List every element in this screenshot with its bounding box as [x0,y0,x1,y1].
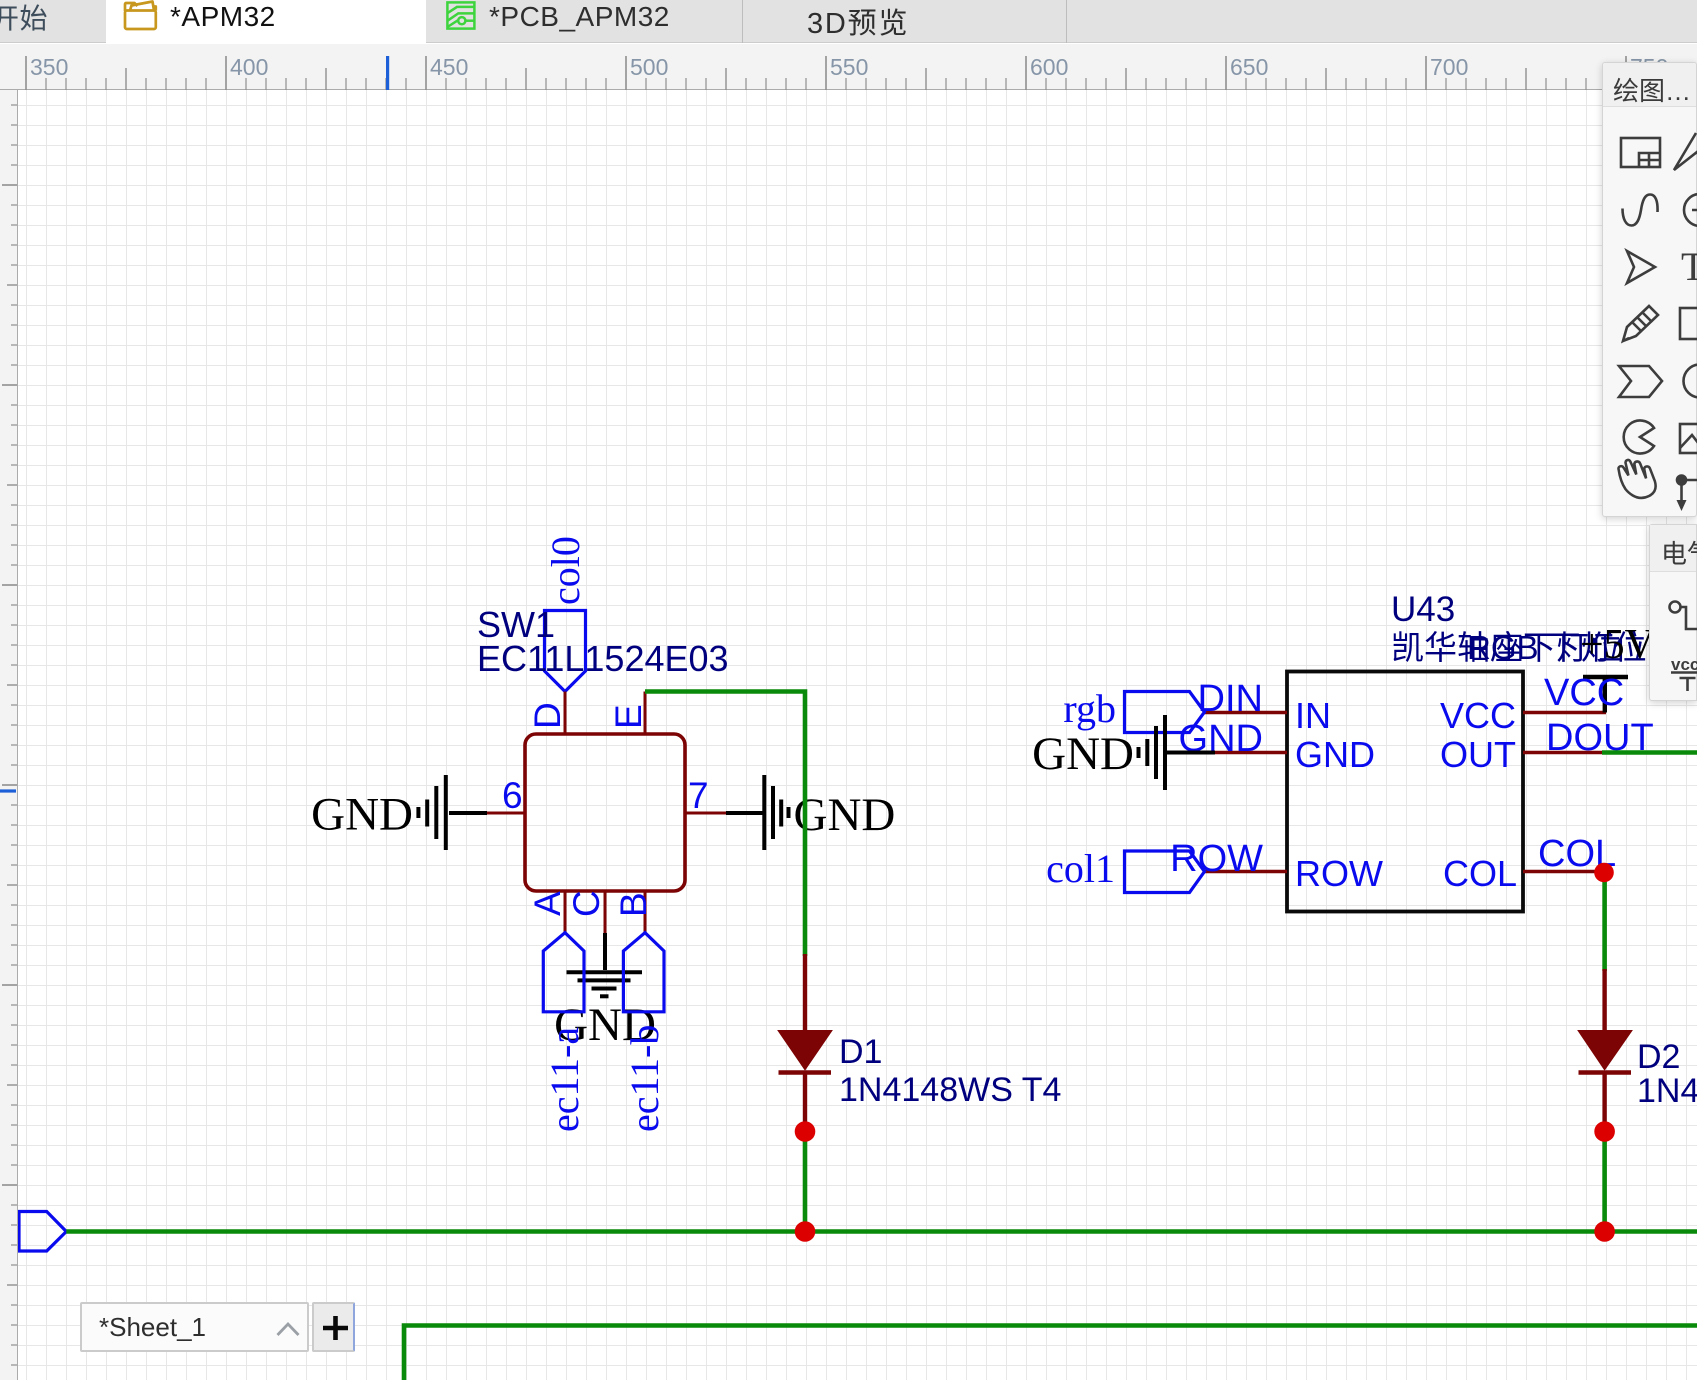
svg-text:1N4148WS T4: 1N4148WS T4 [1637,1072,1697,1110]
svg-text:6: 6 [502,775,523,816]
ground symbol right of SW1 pin 7 [726,775,789,850]
svg-text:GND: GND [311,789,413,841]
svg-text:C: C [566,890,607,917]
pin B of SW1 [644,891,647,933]
ground symbol left of SW1 pin 6 [418,775,487,850]
svg-text:U43: U43 [1391,590,1455,629]
svg-text:550: 550 [830,54,868,80]
svg-text:vcc: vcc [1671,655,1697,674]
net flag col1 [1046,846,1204,893]
svg-text:7: 7 [688,775,709,816]
pin 6 of SW1 [487,775,525,816]
svg-text:700: 700 [1430,54,1468,80]
svg-text:rgb: rgb [1063,686,1116,731]
wire D1 to main rail (green) [803,1131,808,1231]
svg-text:600: 600 [1030,54,1068,80]
svg-text:col0: col0 [543,536,588,605]
IC U43 body [1287,672,1523,912]
svg-text:E: E [608,704,649,729]
junction D1 on main rail [795,1221,816,1242]
svg-text:VCC: VCC [1440,695,1516,736]
svg-text:D1: D1 [839,1033,882,1071]
pin ROW of U43 [1205,853,1384,894]
ground symbol at U43 GND pin [1139,715,1216,790]
wire D2 to main rail (green) [1602,1131,1607,1232]
junction below D2 [1594,1121,1615,1142]
svg-text:500: 500 [630,54,668,80]
pin IN of U43 [1205,695,1332,736]
svg-text:B: B [613,892,654,917]
svg-text:350: 350 [30,54,68,80]
svg-text:T: T [1681,244,1697,289]
svg-text:VCC: VCC [1544,672,1624,714]
svg-text:GND: GND [1032,728,1134,780]
ground symbol below SW1 pin C [567,933,643,996]
svg-text:OUT: OUT [1440,734,1516,775]
pin E of SW1 [608,692,649,735]
main horizontal rail wire (green) [66,1229,1697,1234]
net flag on left edge of main rail [19,1212,66,1252]
svg-text:D2: D2 [1637,1038,1680,1076]
junction below D1 [795,1121,816,1142]
svg-text:GND: GND [1295,734,1375,775]
junction at COL pin [1594,863,1614,883]
pin VCC of U43 [1440,695,1606,736]
svg-text:ROW: ROW [1295,853,1383,894]
svg-text:IN: IN [1295,695,1331,736]
wire anode lead D1 [803,954,807,1031]
svg-text:DIN: DIN [1198,678,1263,720]
svg-text:650: 650 [1230,54,1268,80]
junction D2 on main rail [1594,1221,1615,1242]
svg-text:450: 450 [430,54,468,80]
diode D2 [1579,1031,1632,1124]
pin A of SW1 [564,891,567,933]
wire anode lead D2 [1602,969,1606,1031]
switch SW1 body [525,734,685,891]
pin D of SW1 [527,692,568,735]
svg-text:GND: GND [794,789,896,841]
svg-text:1N4148WS T4: 1N4148WS T4 [839,1071,1061,1109]
svg-text:COL: COL [1443,853,1517,894]
svg-text:ec11-a: ec11-a [542,1027,587,1132]
net flag rgb [1063,686,1204,733]
svg-text:col1: col1 [1046,846,1115,891]
net flag ec11-b [622,933,667,1132]
pin OUT of U43 [1440,734,1602,775]
wire from pin E to D1 (green) [645,692,805,957]
wire OUT to right edge (green) [1602,750,1697,755]
svg-text:400: 400 [230,54,268,80]
second bottom wire (green) [404,1326,1697,1380]
wire COL to D2 (green) [1602,873,1607,972]
diode D1 [779,1031,832,1124]
net flag ec11-a [542,933,587,1132]
svg-text:A: A [527,891,568,916]
pin C of SW1 [604,891,607,933]
svg-text:+5V: +5V [1580,622,1655,668]
svg-text:EC11L1524E03: EC11L1524E03 [477,638,729,679]
pin GND of U43 [1213,734,1375,775]
pin COL of U43 [1443,853,1604,894]
power symbol VCC (+5V) [1583,677,1628,713]
svg-text:D: D [527,702,568,729]
svg-text:ROW: ROW [1170,838,1263,880]
net flag col0 [543,536,588,691]
pin 7 of SW1 [685,775,726,816]
svg-text:ec11-b: ec11-b [622,1025,667,1132]
